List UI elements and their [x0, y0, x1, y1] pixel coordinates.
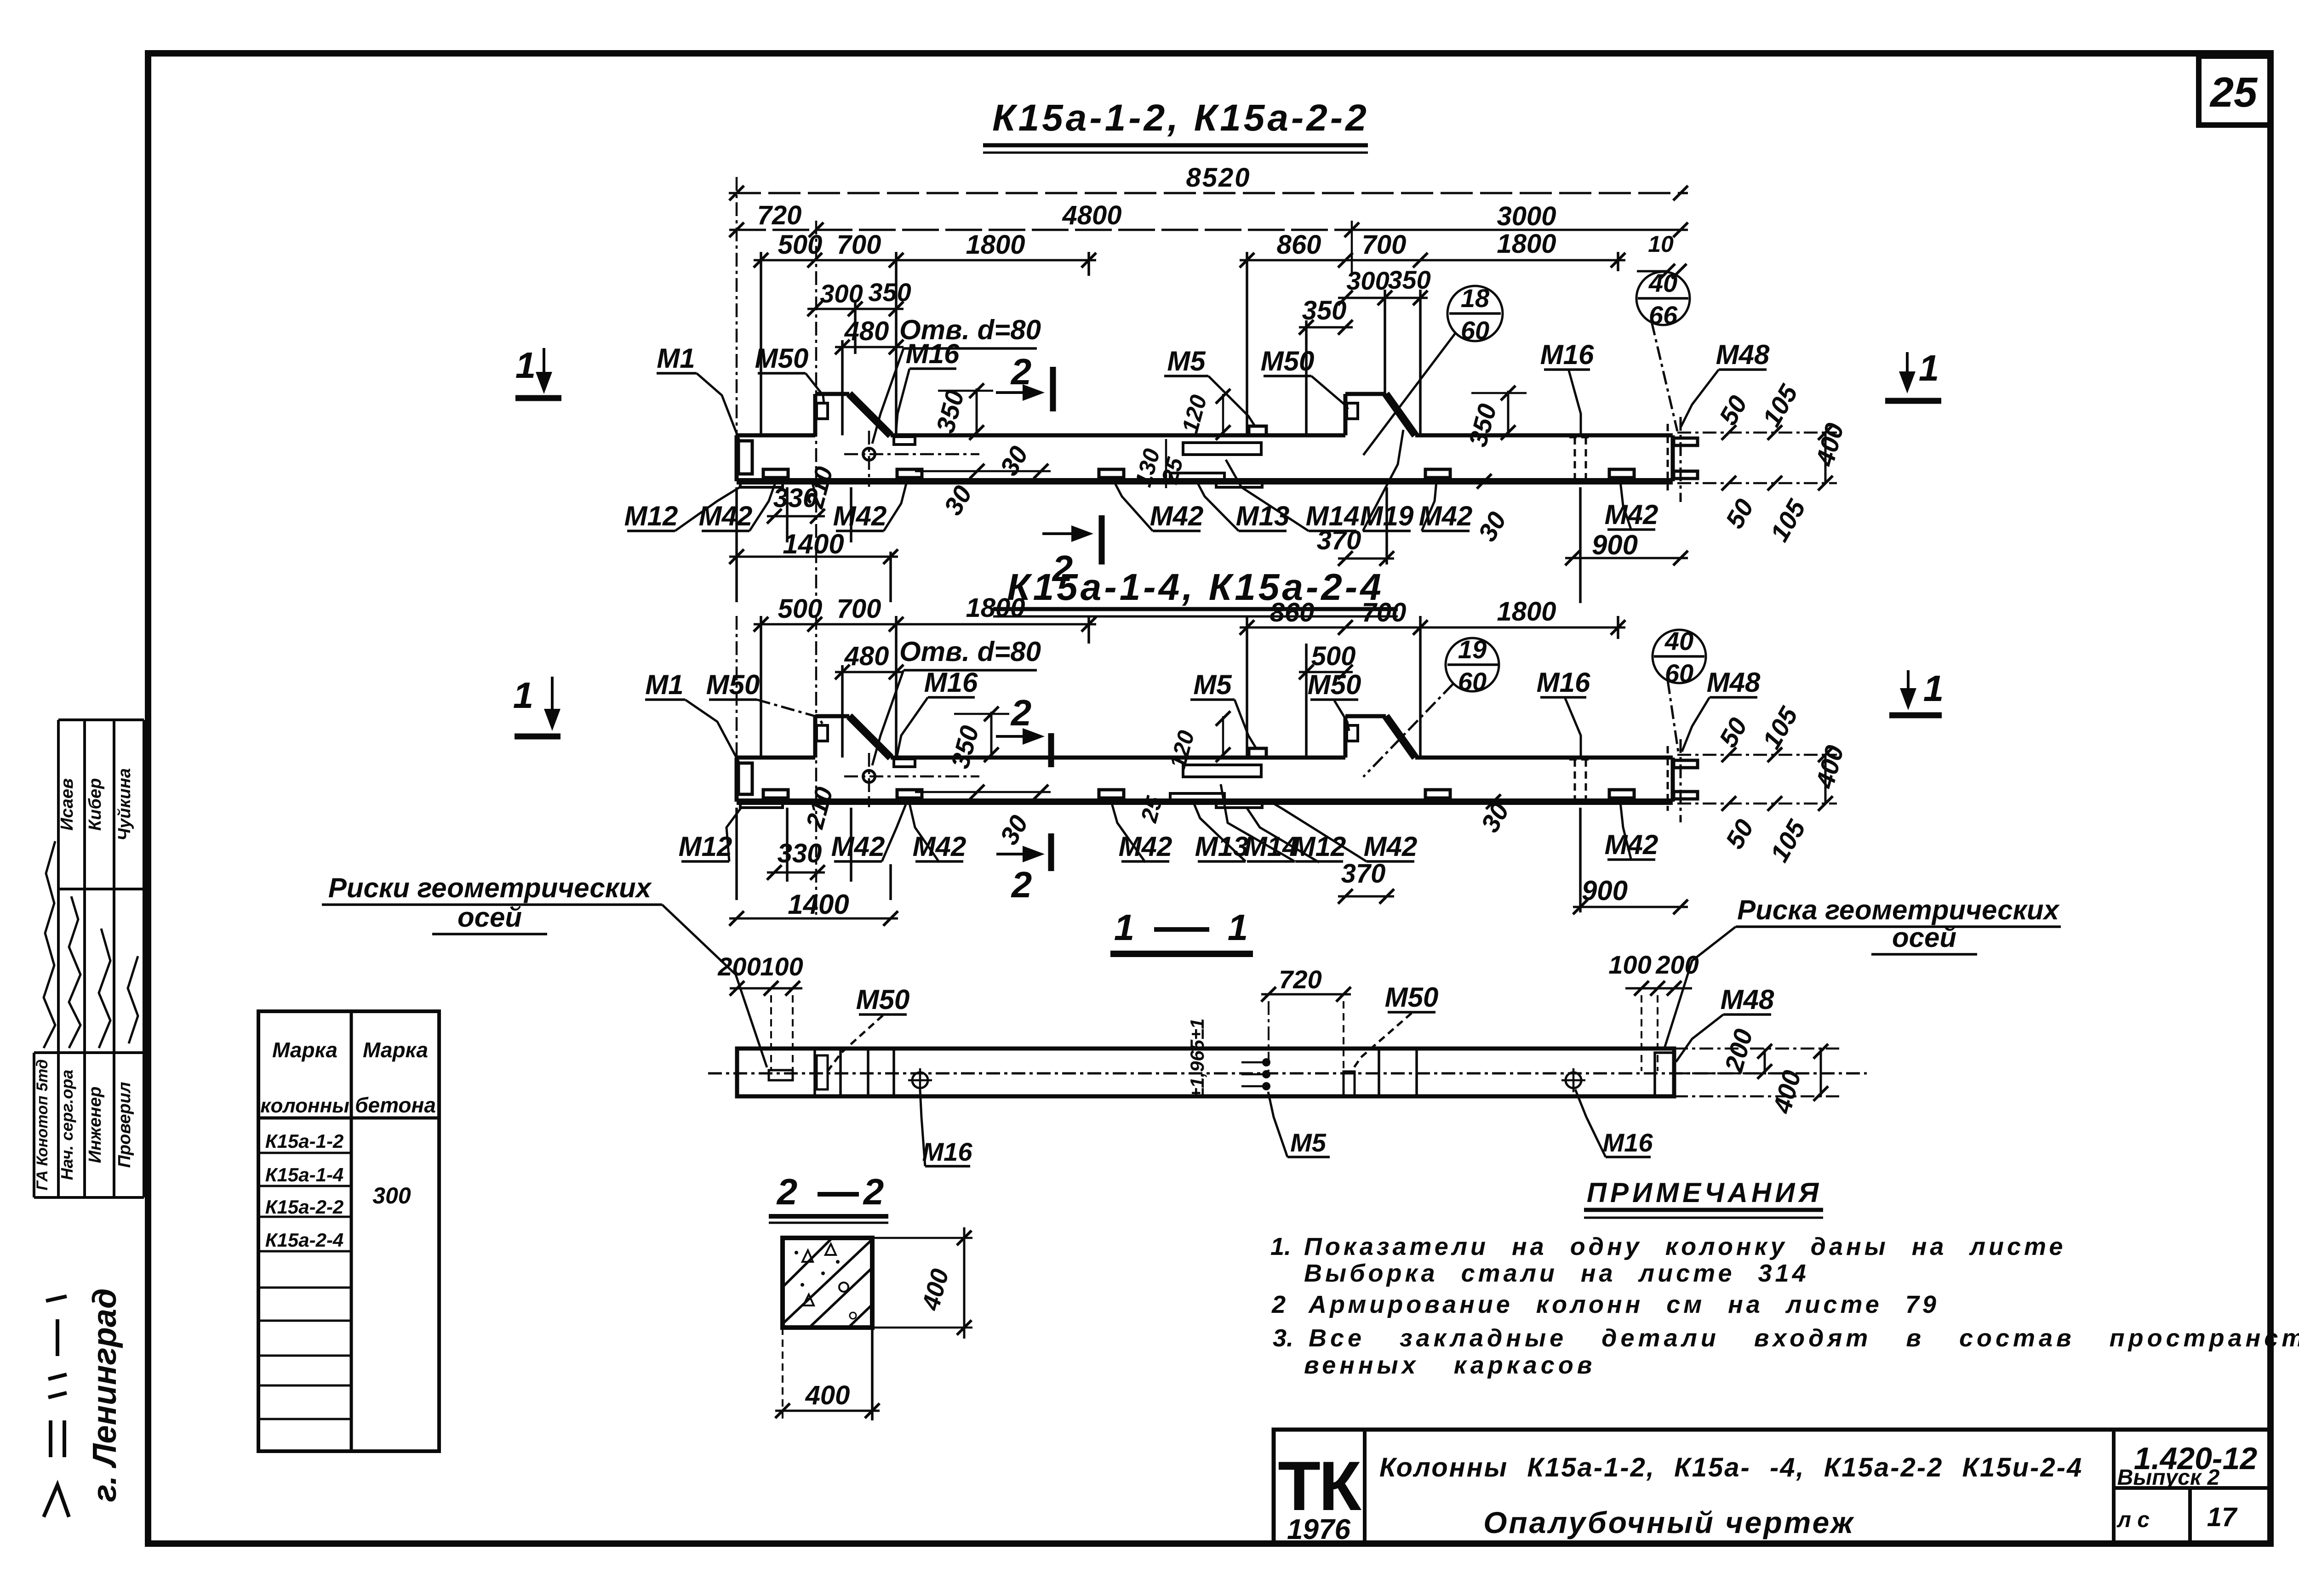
svg-text:2: 2 — [776, 1171, 798, 1212]
svg-text:2: 2 — [1011, 864, 1032, 905]
dim row 720 4800 3000 — [729, 229, 1359, 231]
circle 40/66 — [1636, 272, 1690, 325]
right end dimensions 50 105 400 — [1677, 754, 1837, 756]
svg-text:350: 350 — [1388, 265, 1430, 294]
margin tick marks — [44, 1485, 69, 1517]
column body K15a-1-4 — [737, 756, 815, 760]
svg-text:Нач. серг.ора: Нач. серг.ора — [57, 1070, 76, 1180]
svg-text:бетона: бетона — [355, 1093, 436, 1117]
svg-text:1800: 1800 — [1497, 229, 1556, 259]
dim row 860 700 1800 (right) — [1240, 259, 1353, 262]
M5 dots mid — [1262, 1058, 1270, 1066]
svg-text:700: 700 — [837, 594, 881, 624]
svg-text:Колонны К15а-1-2, К15а- -4, К1: Колонны К15а-1-2, К15а- -4, К15а-2-2 К15… — [1379, 1453, 2083, 1482]
svg-text:К15а-1-2: К15а-1-2 — [265, 1130, 344, 1152]
svg-text:М13: М13 — [1236, 501, 1290, 531]
joint lines mid-right — [1378, 1049, 1380, 1096]
svg-text:М42: М42 — [831, 831, 885, 862]
dim row 300 350 (left) — [807, 308, 863, 310]
svg-text:1: 1 — [1919, 348, 1939, 388]
svg-text:Чуйкина: Чуйкина — [115, 768, 134, 841]
svg-text:М16: М16 — [1537, 667, 1590, 698]
svg-text:330: 330 — [773, 483, 818, 513]
dim 350 vertical (corbel1 d2) — [990, 712, 993, 758]
svg-text:Марка: Марка — [272, 1038, 337, 1062]
svg-text:М1: М1 — [645, 669, 683, 700]
plate at corbel1 foot — [894, 759, 915, 767]
svg-text:2: 2 — [1010, 351, 1032, 392]
svg-text:500: 500 — [1311, 641, 1356, 671]
svg-text:Исаев: Исаев — [57, 778, 77, 831]
svg-text:ПРИМЕЧАНИЯ: ПРИМЕЧАНИЯ — [1587, 1177, 1822, 1208]
dim 200 400 right — [1674, 1048, 1839, 1050]
svg-text:300: 300 — [372, 1183, 411, 1208]
svg-text:ГА Конотоп 5тд: ГА Конотоп 5тд — [34, 1059, 51, 1190]
svg-text:400: 400 — [805, 1380, 850, 1410]
svg-text:колонны: колонны — [260, 1094, 349, 1117]
svg-text:18: 18 — [1461, 284, 1490, 313]
svg-text:1: 1 — [513, 675, 534, 716]
svg-text:К15а-1-4, К15а-2-4: К15а-1-4, К15а-2-4 — [1007, 566, 1384, 608]
svg-text:25: 25 — [2209, 69, 2258, 116]
svg-text:8520: 8520 — [1186, 163, 1251, 193]
svg-text:л с: л с — [2116, 1508, 2150, 1532]
svg-text:3000: 3000 — [1497, 201, 1556, 231]
svg-text:Отв. d=80: Отв. d=80 — [899, 636, 1041, 667]
right end plates M48 — [1674, 438, 1698, 445]
dim 500 (right, d2) — [1299, 671, 1353, 673]
svg-text:19: 19 — [1458, 635, 1487, 664]
plate M5 on top face — [1249, 748, 1266, 758]
svg-text:М50: М50 — [1385, 982, 1439, 1013]
svg-text:М50: М50 — [755, 343, 809, 374]
svg-text:Выпуск 2: Выпуск 2 — [2117, 1465, 2220, 1490]
svg-text:2: 2 — [1271, 1291, 1286, 1318]
svg-text:±1,965±1: ±1,965±1 — [1186, 1018, 1208, 1099]
svg-text:М48: М48 — [1707, 667, 1761, 698]
svg-text:200: 200 — [717, 952, 761, 981]
svg-text:Инженер: Инженер — [86, 1087, 105, 1163]
svg-text:Опалубочный чертеж: Опалубочный чертеж — [1483, 1505, 1855, 1539]
svg-text:К15а-1-2, К15а-2-2: К15а-1-2, К15а-2-2 — [992, 97, 1369, 139]
svg-text:1: 1 — [1114, 907, 1135, 948]
dim 480 — [835, 346, 904, 348]
30 offsets line — [915, 470, 1051, 473]
svg-text:370: 370 — [1317, 525, 1361, 555]
svg-text:900: 900 — [1582, 875, 1628, 906]
svg-text:М12: М12 — [624, 501, 678, 531]
svg-text:М42: М42 — [1605, 829, 1658, 860]
column body K15a-1-2 — [737, 433, 815, 438]
extension verticals d1 — [736, 177, 738, 481]
svg-text:2: 2 — [1010, 692, 1032, 733]
dim 350 vertical (corbel2) — [1507, 391, 1510, 435]
svg-text:М50: М50 — [1308, 669, 1361, 700]
right end plates M48 — [1674, 760, 1698, 768]
svg-text:Армирование колонн см на листе: Армирование колонн см на листе 79 — [1308, 1291, 1939, 1318]
svg-text:М42: М42 — [1419, 501, 1473, 531]
svg-text:осей: осей — [1892, 922, 1956, 953]
svg-text:60: 60 — [1458, 667, 1487, 696]
svg-text:1.: 1. — [1270, 1233, 1291, 1260]
stamp signatures (scrawl) — [69, 896, 80, 1048]
dashed plate M16 — [1574, 437, 1576, 479]
svg-text:Выборка стали на листе 314: Выборка стали на листе 314 — [1304, 1260, 1809, 1287]
embedded plate M12 under left end — [740, 481, 783, 487]
marks table — [258, 1011, 439, 1451]
title block frame — [1274, 1430, 2270, 1545]
30 offsets (d2) — [915, 791, 1051, 793]
svg-text:60: 60 — [1461, 316, 1489, 345]
svg-text:1800: 1800 — [1497, 597, 1556, 627]
dim row 500 700 1800 (left, d2) — [754, 623, 822, 626]
M50 right plate — [1344, 1072, 1355, 1096]
svg-text:100: 100 — [1608, 950, 1651, 979]
svg-text:17: 17 — [2207, 1502, 2238, 1532]
plates M14 M13 M12 cluster — [1183, 765, 1261, 777]
svg-text:1800: 1800 — [966, 593, 1025, 623]
svg-text:1: 1 — [1228, 907, 1248, 948]
svg-text:370: 370 — [1341, 859, 1386, 889]
riska mark left — [769, 1070, 793, 1080]
stamp table left margin — [57, 720, 60, 1197]
joint lines mid-left — [867, 1049, 869, 1096]
svg-text:М1: М1 — [657, 343, 695, 374]
svg-text:М42: М42 — [833, 501, 887, 531]
svg-text:480: 480 — [844, 316, 889, 346]
circle 40/60 — [1653, 630, 1706, 683]
bottom embedded plates M42 — [763, 790, 788, 798]
bottom embedded plates M42 — [763, 469, 788, 478]
svg-text:М5: М5 — [1290, 1128, 1327, 1157]
svg-text:венных каркасов: венных каркасов — [1304, 1351, 1596, 1379]
dim row 860 700 1800 (right, d2) — [1240, 627, 1353, 629]
hole otv d80 — [863, 448, 875, 460]
svg-text:Кибер: Кибер — [86, 778, 105, 831]
svg-text:1: 1 — [515, 345, 536, 386]
svg-text:1800: 1800 — [966, 230, 1025, 260]
svg-text:3.: 3. — [1273, 1324, 1293, 1352]
svg-text:100: 100 — [760, 952, 803, 981]
extension verticals d2 — [736, 616, 738, 802]
svg-text:К15а-2-4: К15а-2-4 — [265, 1229, 344, 1251]
dim 400 right of square — [872, 1237, 972, 1239]
svg-text:М16: М16 — [1540, 339, 1594, 370]
svg-text:350: 350 — [1302, 296, 1347, 325]
dashed plate M16 — [1574, 759, 1576, 800]
svg-text:Риска геометрических: Риска геометрических — [1737, 895, 2060, 925]
svg-text:1976: 1976 — [1287, 1514, 1350, 1545]
svg-text:М50: М50 — [706, 669, 760, 700]
dim 350 (right corbel) — [1299, 326, 1353, 329]
svg-text:М5: М5 — [1193, 669, 1232, 700]
svg-text:М50: М50 — [1261, 346, 1315, 376]
svg-text:К15а-2-2: К15а-2-2 — [265, 1196, 344, 1218]
M50 plate left — [813, 1049, 816, 1096]
svg-text:1400: 1400 — [788, 889, 849, 920]
embedded plate M1 left end — [738, 763, 752, 794]
svg-text:4800: 4800 — [1062, 200, 1121, 230]
svg-text:900: 900 — [1592, 530, 1638, 560]
svg-text:К15а-1-4: К15а-1-4 — [265, 1164, 344, 1186]
svg-text:860: 860 — [1277, 230, 1321, 260]
svg-text:720: 720 — [1279, 965, 1321, 994]
svg-text:М12: М12 — [1292, 831, 1346, 862]
plates M14 M13 M12 cluster — [1183, 443, 1261, 455]
svg-text:Проверил: Проверил — [115, 1082, 134, 1168]
svg-text:М42: М42 — [1364, 831, 1418, 862]
svg-text:М16: М16 — [922, 1137, 973, 1166]
section 1-1 bar — [737, 1049, 1674, 1096]
svg-text:700: 700 — [1362, 598, 1407, 627]
svg-text:Риски геометрических: Риски геометрических — [328, 872, 652, 903]
sheet number box 25 — [2199, 56, 2270, 125]
hole circle right — [1566, 1072, 1581, 1088]
dim 400 below square — [782, 1328, 783, 1420]
svg-text:1: 1 — [1923, 668, 1944, 709]
embedded plate M1 left end — [738, 441, 752, 474]
svg-text:Показатели на одну колонку дан: Показатели на одну колонку даны на листе — [1304, 1233, 2066, 1260]
plate at corbel1 foot — [894, 437, 915, 445]
embedded plate M12 under left end — [740, 802, 783, 808]
svg-text:г. Ленинград: г. Ленинград — [86, 1288, 123, 1502]
hole otv d80 — [863, 770, 875, 782]
hole circle left — [912, 1072, 928, 1088]
svg-text:Марка: Марка — [363, 1038, 428, 1062]
svg-text:М48: М48 — [1716, 339, 1770, 370]
svg-text:1400: 1400 — [783, 529, 844, 559]
plate M5 on top face — [1249, 426, 1266, 435]
svg-text:М48: М48 — [1721, 984, 1774, 1015]
section square with hatch — [783, 1238, 872, 1328]
svg-text:М16: М16 — [906, 338, 960, 369]
svg-text:200: 200 — [1655, 950, 1699, 979]
svg-text:300: 300 — [1346, 266, 1389, 295]
svg-text:М12: М12 — [679, 831, 732, 862]
svg-text:М50: М50 — [856, 984, 910, 1015]
dim row 500 700 1800 (left) — [754, 259, 822, 262]
svg-text:М5: М5 — [1167, 346, 1206, 376]
svg-text:М42: М42 — [1150, 501, 1204, 531]
right end details — [1655, 1053, 1674, 1096]
svg-text:330: 330 — [778, 838, 822, 868]
svg-text:40: 40 — [1648, 268, 1677, 297]
svg-text:М42: М42 — [1605, 499, 1658, 530]
dim 350 vertical (corbel1) — [976, 388, 978, 435]
circle 18/60 — [1447, 286, 1503, 341]
svg-text:2: 2 — [863, 1171, 884, 1212]
svg-text:М42: М42 — [699, 501, 753, 531]
svg-text:700: 700 — [1362, 230, 1407, 260]
svg-text:10: 10 — [1648, 231, 1674, 257]
dim 480 (d2) — [835, 671, 904, 673]
svg-text:350: 350 — [868, 278, 911, 307]
svg-text:Все закладные детали входят в: Все закладные детали входят в состав про… — [1309, 1324, 2299, 1352]
svg-text:860: 860 — [1270, 598, 1315, 627]
svg-text:осей: осей — [458, 902, 522, 933]
right end dimensions 50 105 400 — [1677, 432, 1837, 434]
svg-text:480: 480 — [844, 641, 889, 671]
svg-text:700: 700 — [837, 230, 881, 260]
svg-text:40: 40 — [1664, 627, 1693, 655]
circle 19/60 — [1446, 638, 1499, 691]
svg-text:М16: М16 — [1603, 1128, 1653, 1157]
svg-text:М16: М16 — [924, 667, 978, 698]
dim row 300 350 (right) — [1338, 297, 1392, 299]
dim row 8520 — [729, 192, 1688, 194]
svg-text:720: 720 — [757, 200, 802, 230]
